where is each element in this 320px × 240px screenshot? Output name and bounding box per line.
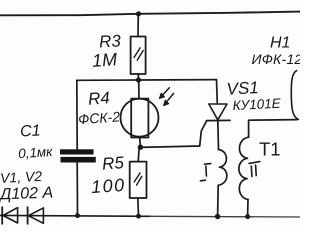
winding I label bars [200,164,210,181]
capacitor C1 bottom plate [61,157,96,163]
winding II label bars [249,162,260,177]
svg-text:1М: 1М [91,49,117,71]
wire winding II bottom lead [247,200,249,217]
diode V2 triangle [28,208,43,223]
svg-text:ИФК-12: ИФК-12 [252,51,301,67]
resistor R5 power slashes [134,173,142,185]
svg-text:ФСК-2: ФСК-2 [78,108,121,127]
wire R5 top lead [138,147,139,161]
diode V1 triangle [3,208,18,223]
node junction R3 / mid wire [136,77,141,82]
photoresistor R4 body rect [131,99,148,138]
wire gate horizontal [140,146,199,147]
svg-text:R4: R4 [87,88,110,108]
transformer T1 winding I [218,150,227,186]
thyristor VS1 triangle [209,104,227,120]
wire mid horizontal y=80 [77,79,217,82]
wire R4 bottom lead [139,138,142,148]
svg-text:100: 100 [90,175,126,197]
resistor R3 [131,37,146,75]
photoresistor R4 light arrow 1 [162,88,170,96]
wire VS1 cathode down [217,121,220,150]
wire R3 top lead [137,14,139,37]
node junction C1 / bottom rail [75,213,80,218]
svg-text:0,1мк: 0,1мк [18,144,54,161]
svg-text:КУ101Е: КУ101Е [232,96,282,114]
svg-text:VS1: VS1 [226,78,259,99]
photoresistor R4 circle [121,99,159,137]
wire winding I bottom lead [217,185,220,216]
capacitor C1 top plate [60,149,94,154]
wire C1 bottom lead [76,163,78,216]
node junction winding I / bottom rail [215,214,220,219]
svg-text:R5: R5 [101,153,125,174]
diode V1 cathode bar [1,207,3,224]
svg-text:С1: С1 [20,122,41,140]
lamp H1 bulb left arc [291,71,298,120]
photoresistor R4 light arrow 2 [166,93,174,102]
svg-text:V1, V2: V1, V2 [0,168,43,186]
node junction R4 / R5 / gate [138,145,143,150]
thyristor VS1 cathode bar [207,119,230,121]
svg-text:Д102 А: Д102 А [0,185,53,204]
wire bottom rail [0,214,150,217]
diode V2 cathode bar [27,207,29,224]
resistor R5 [130,162,147,198]
wire VS1 anode drop [216,80,219,104]
wire R3 bottom lead [137,74,139,80]
wire left drop to C1 [76,80,78,149]
resistor R3 power slashes [134,48,143,60]
node junction R5 / bottom rail [136,214,141,219]
wire R5 bottom lead [137,198,140,216]
node junction top of R3 [136,11,141,16]
wire top rail [0,12,300,16]
node junction winding II / bottom rail [245,214,250,219]
svg-text:Т1: Т1 [259,139,281,160]
wire R4 top lead [138,80,140,99]
svg-text:Н1: Н1 [270,35,290,52]
wire gate diagonal to VS1 [200,121,207,146]
wire winding II top lead and to lamp [249,120,297,138]
transformer T1 winding II [239,137,249,199]
svg-text:R3: R3 [99,31,122,51]
